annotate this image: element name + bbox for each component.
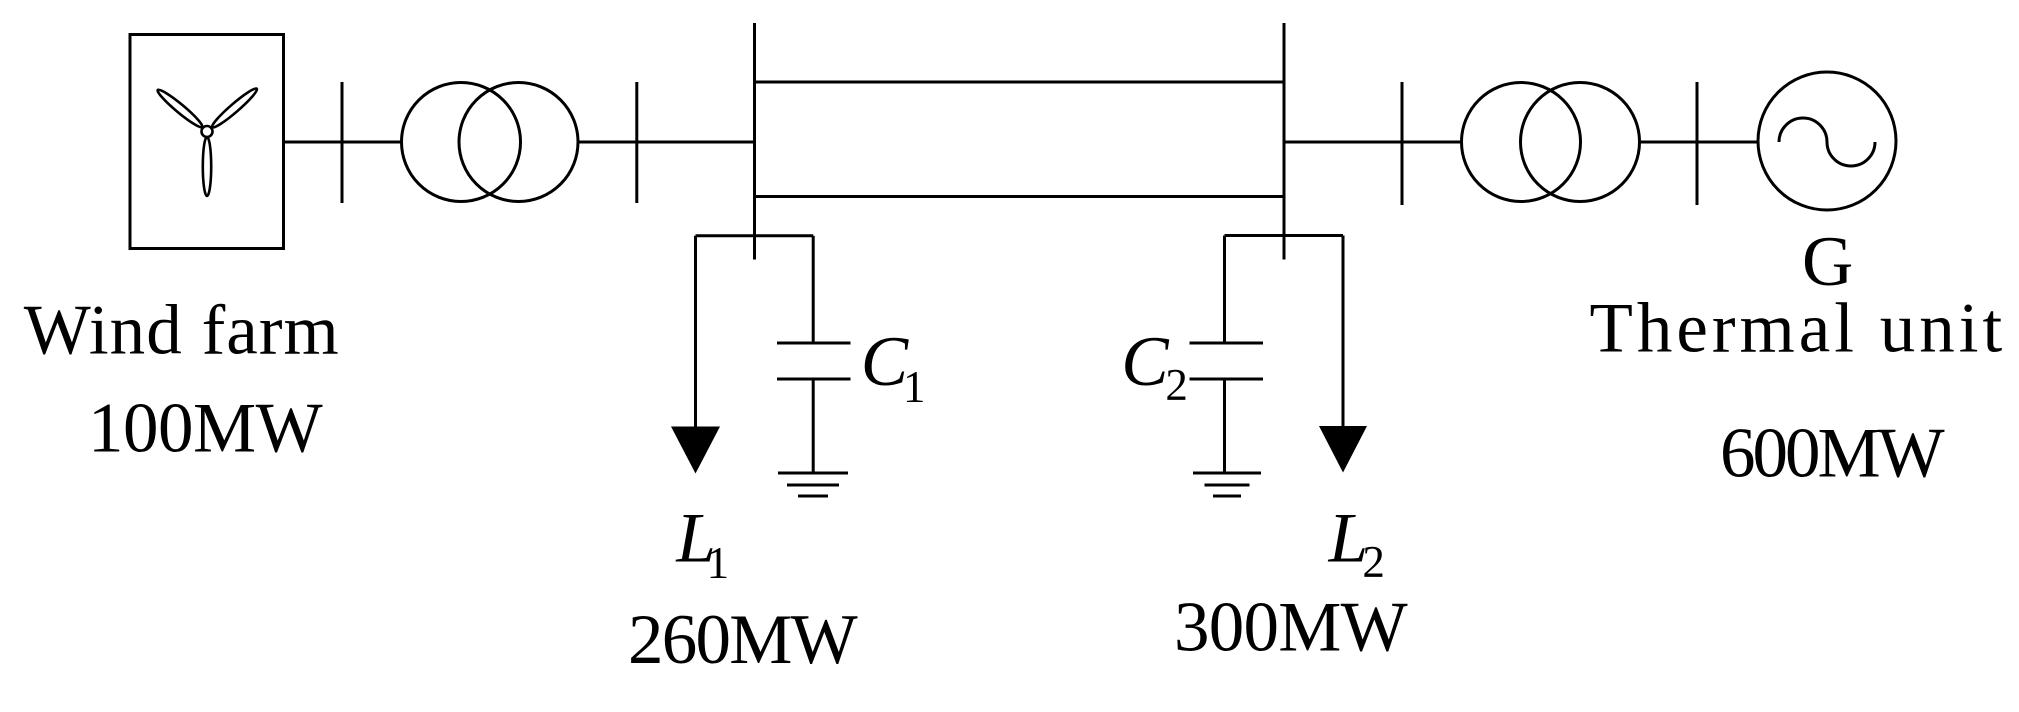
svg-text:100MW: 100MW — [88, 389, 323, 467]
svg-text:2: 2 — [1165, 360, 1188, 410]
svg-text:260MW: 260MW — [628, 601, 858, 679]
svg-text:1: 1 — [707, 538, 730, 588]
svg-text:1: 1 — [903, 362, 926, 412]
svg-text:Thermal unit: Thermal unit — [1590, 289, 2007, 367]
svg-text:Wind farm: Wind farm — [24, 292, 340, 370]
svg-text:C: C — [1121, 323, 1170, 401]
svg-text:300MW: 300MW — [1174, 589, 1408, 667]
svg-text:600MW: 600MW — [1720, 415, 1945, 493]
svg-text:2: 2 — [1362, 537, 1385, 587]
